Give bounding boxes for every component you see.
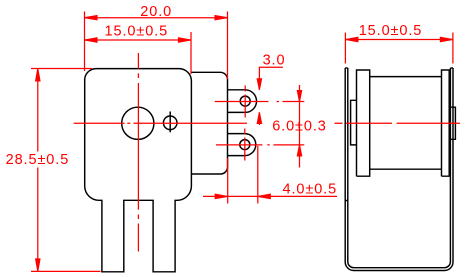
side view bracket outer outline [345,68,453,271]
arrow 20.0 right [215,16,228,20]
crosshair hole T2 [244,129,246,161]
arrow 15.0 right-left [345,37,358,41]
front view body outline with mounting legs [85,69,192,272]
side view right flange [442,70,450,176]
arrow 4.0 left [215,194,228,198]
side view left tab [351,100,357,145]
terminal tab T1 [228,90,257,113]
side view central body bottom edge [370,168,442,170]
bracket left wall top cap [345,67,348,69]
arrow 28.5 bottom [36,259,40,272]
arrow 15.0 left-left [85,38,98,42]
arrow 20.0 left [85,16,98,20]
dimension 28.5 lines [37,69,39,272]
centerline horizontal main [74,122,460,124]
dimension 6.0 line [299,85,301,168]
svg-text:4.0±0.5: 4.0±0.5 [283,182,338,198]
large mounting hole [122,107,154,139]
arrow 28.5 top [36,69,40,82]
label 28.5±0.5 white mask [4,152,71,168]
dimension 4.0 lines [203,195,337,197]
pilot hole vertical crosshair [169,112,171,133]
svg-text:15.0±0.5: 15.0±0.5 [105,24,169,40]
arrow 4.0 right [258,194,271,198]
small pilot hole [163,116,177,130]
bracket seam tick [345,200,348,202]
centerline vertical front view [137,53,139,252]
arrow 15.0 left-right [179,38,192,42]
front view right section (rear housing) [191,72,227,174]
svg-text:6.0±0.3: 6.0±0.3 [272,118,327,134]
side view bracket inner outline [348,68,451,268]
side view left flange [357,70,370,176]
svg-text:15.0±0.5: 15.0±0.5 [359,23,423,39]
dimension 20.0 lines [85,17,228,19]
side view central body top edge [370,76,442,78]
terminal hole T2 [240,140,250,150]
bracket right wall top cap [450,67,453,69]
centerline terminal T2 [216,144,304,146]
svg-text:3.0: 3.0 [263,52,286,68]
arrow 6.0 top [297,91,301,102]
dimension 3.0 lines [259,66,283,68]
side view right tab [450,107,455,139]
arrow 15.0 right-right [440,37,453,41]
terminal hole T1 [240,96,250,106]
arrow 3.0 down [257,79,261,90]
centerline terminal T1 [215,101,305,103]
svg-text:20.0: 20.0 [140,4,172,20]
arrow 6.0 bottom [297,145,301,156]
terminal tab T2 [228,134,256,156]
svg-text:28.5±0.5: 28.5±0.5 [6,152,70,168]
arrow 3.0 up [257,112,261,123]
dimension 15.0 right lines [345,39,453,41]
dimension 15.0 left lines [85,39,192,41]
crosshair hole T1 [244,86,246,118]
